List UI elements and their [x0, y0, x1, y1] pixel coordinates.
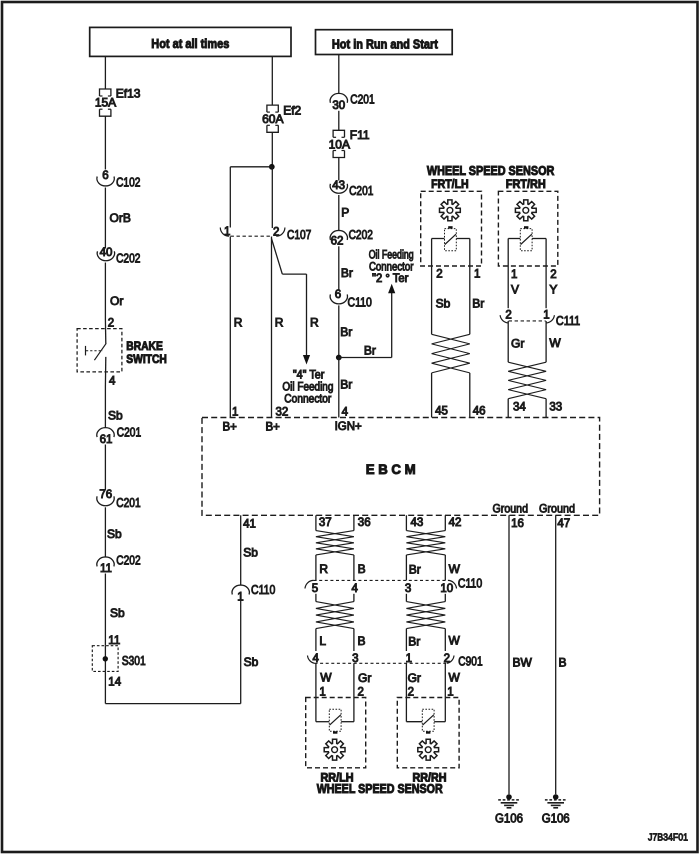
wire Br branch to oil feeding connector 2 Ter: [339, 293, 392, 358]
svg-text:Br: Br: [472, 297, 484, 311]
svg-text:2: 2: [505, 310, 511, 322]
svg-text:IGN+: IGN+: [335, 421, 362, 433]
svg-text:C202: C202: [349, 228, 373, 242]
svg-text:R: R: [275, 315, 284, 329]
wire: bus to connector C201 pin 30: [338, 55, 340, 94]
wire Gr: [508, 321, 524, 362]
svg-text:W: W: [449, 562, 461, 576]
svg-text:40: 40: [100, 247, 113, 259]
svg-text:R: R: [319, 562, 328, 576]
svg-text:WHEEL SPEED SENSOR: WHEEL SPEED SENSOR: [427, 164, 555, 178]
wire Br: junction to EBCM pin 4 (IGN+): [339, 358, 353, 418]
svg-text:C110: C110: [458, 577, 482, 591]
svg-text:C201: C201: [349, 184, 373, 198]
svg-text:1: 1: [237, 591, 243, 603]
connector C110 pin 1: [232, 583, 275, 603]
svg-text:S301: S301: [122, 654, 146, 668]
svg-text:Oil Feeding: Oil Feeding: [282, 382, 333, 394]
svg-text:Gr: Gr: [358, 671, 371, 685]
wire B: [354, 555, 366, 581]
svg-text:2: 2: [408, 686, 414, 698]
svg-text:B+: B+: [223, 422, 238, 434]
svg-text:WHEEL SPEED SENSOR: WHEEL SPEED SENSOR: [317, 782, 443, 796]
svg-text:Ef2: Ef2: [283, 104, 301, 118]
svg-text:C110: C110: [251, 583, 275, 597]
svg-text:R: R: [310, 315, 319, 329]
svg-text:Br: Br: [408, 634, 420, 648]
svg-text:C901: C901: [458, 655, 482, 669]
twisted pair (37/36): [316, 531, 354, 555]
svg-text:2: 2: [550, 269, 556, 281]
svg-text:Gr: Gr: [408, 671, 421, 685]
twisted pair FRT/RH: [508, 362, 546, 399]
svg-text:6: 6: [102, 170, 108, 182]
svg-text:C102: C102: [116, 176, 140, 190]
svg-text:Y: Y: [549, 283, 557, 297]
svg-text:2: 2: [108, 318, 114, 330]
svg-text:W: W: [549, 336, 561, 350]
svg-text:G106: G106: [495, 812, 523, 826]
wire branch to C107 pin 1: [230, 167, 271, 228]
svg-text:B: B: [358, 562, 366, 576]
svg-text:C110: C110: [348, 295, 372, 309]
wire B (EBCM 47 to G106): [556, 515, 567, 794]
svg-text:16: 16: [511, 518, 524, 530]
svg-text:14: 14: [108, 677, 121, 689]
svg-text:C201: C201: [350, 93, 374, 107]
svg-text:1: 1: [447, 686, 453, 698]
twisted pair FRT/LH: [432, 334, 470, 373]
svg-text:Or: Or: [110, 294, 123, 308]
wire Br: [406, 629, 420, 651]
svg-text:76: 76: [99, 489, 112, 501]
fuse Ef13 15A: [95, 86, 141, 116]
svg-text:"4" Ter: "4" Ter: [293, 370, 325, 382]
wire P: [339, 195, 349, 231]
svg-text:Br: Br: [340, 378, 352, 392]
junction node (Br splice): [336, 355, 342, 361]
wire Gr (to RR/RH pin 2): [406, 663, 421, 697]
wire R branch to 4 Ter oil feeding connector: [272, 239, 320, 356]
ground G106 (right): [542, 794, 570, 825]
svg-text:15A: 15A: [95, 95, 116, 109]
brake switch: [77, 320, 167, 387]
wire: bus to fuse Ef2: [271, 56, 273, 105]
svg-text:Sb: Sb: [108, 409, 123, 423]
svg-text:6: 6: [335, 289, 341, 301]
wire L: [316, 629, 327, 651]
svg-text:C202: C202: [116, 554, 140, 568]
svg-text:Sb: Sb: [244, 655, 259, 669]
svg-text:43: 43: [411, 517, 424, 529]
svg-text:42: 42: [449, 517, 462, 529]
wheel speed sensor FRT/LH: [421, 191, 482, 266]
wire Br to junction: [339, 305, 353, 357]
svg-text:4: 4: [342, 407, 349, 419]
wires below C110: [316, 594, 445, 602]
svg-text:1: 1: [543, 310, 549, 322]
svg-text:Sb: Sb: [243, 546, 258, 560]
svg-text:Connector: Connector: [284, 394, 331, 406]
wire: bus to fuse Ef13: [104, 56, 106, 88]
connector C202 pin 40: [97, 247, 140, 266]
svg-text:SWITCH: SWITCH: [126, 352, 167, 366]
twisted pair (3/1): [406, 602, 445, 629]
wire BW (EBCM 16 to G106): [509, 515, 533, 794]
svg-text:2: 2: [436, 269, 442, 281]
wire OrB: [105, 188, 130, 249]
annotation: Oil Feeding Connector "2" Ter: [369, 250, 414, 286]
svg-text:45: 45: [435, 405, 448, 417]
svg-text:Br: Br: [409, 563, 421, 577]
svg-text:C201: C201: [117, 426, 141, 440]
svg-text:2: 2: [358, 686, 364, 698]
svg-text:G106: G106: [542, 812, 570, 826]
power bus: Hot at all times: [90, 27, 291, 56]
connector C202 pin 62: [330, 228, 373, 248]
svg-text:Sb: Sb: [107, 527, 122, 541]
wire Sb (FRT/LH pin 2 to EBCM 45): [432, 239, 451, 335]
connector C201 pin 30: [330, 93, 375, 113]
connector C102 pin 6: [97, 170, 141, 190]
wire W: [445, 629, 460, 651]
svg-text:4: 4: [109, 375, 116, 387]
wire W: [546, 321, 561, 362]
fuse Ef2 60A: [262, 104, 301, 133]
wheel speed sensor FRT/RH: [498, 191, 557, 266]
svg-text:Ef13: Ef13: [116, 86, 141, 100]
annotation: "4" Ter Oil Feeding Connector: [282, 370, 333, 406]
connector C201 pin 61: [97, 426, 141, 447]
svg-text:1: 1: [224, 226, 230, 238]
wheel speed sensor RR/LH: [306, 698, 366, 768]
wire Br (62 to C110): [339, 246, 353, 290]
svg-text:C201: C201: [116, 496, 140, 510]
wire: fuse Ef13 to connector C102: [104, 116, 106, 169]
connector C107 (pins 1 and 2): [220, 226, 311, 242]
wire: C201 pin 61 to C201 pin 76: [104, 445, 106, 491]
wires from EBCM 37/36: [316, 515, 354, 530]
svg-text:3: 3: [405, 583, 411, 595]
svg-text:Br: Br: [341, 266, 353, 280]
wire: C201 to fuse F11: [338, 111, 340, 131]
svg-text:1: 1: [232, 407, 238, 419]
wire Br: [406, 555, 420, 581]
svg-text:1: 1: [511, 269, 517, 281]
wire Gr (to RR/LH pin 2): [354, 663, 371, 697]
wire Br (FRT/LH pin 1 to EBCM 46): [470, 239, 485, 335]
svg-text:"2 ° Ter: "2 ° Ter: [372, 273, 409, 285]
svg-text:W: W: [320, 670, 332, 684]
svg-text:FRT/LH: FRT/LH: [431, 177, 469, 191]
wires from EBCM 43/42: [406, 515, 445, 530]
svg-text:10: 10: [440, 583, 453, 595]
wire B: [354, 629, 366, 651]
svg-text:33: 33: [549, 402, 562, 414]
svg-text:W: W: [449, 670, 461, 684]
wires to EBCM pins 34/33: [508, 399, 546, 418]
wire R: [316, 555, 329, 581]
svg-text:Ground: Ground: [493, 502, 529, 516]
svg-text:R: R: [234, 316, 243, 330]
svg-text:1: 1: [474, 269, 480, 281]
wire R (C107 pin 2 to EBCM pin 32): [272, 237, 284, 418]
connector C110 pin 6: [330, 289, 372, 309]
connector C111 (pins 2 and 1): [500, 310, 580, 329]
svg-text:Oil Feeding: Oil Feeding: [369, 250, 414, 262]
svg-text:J7B34F01: J7B34F01: [648, 832, 688, 844]
svg-text:OrB: OrB: [110, 211, 131, 225]
svg-text:Sb: Sb: [110, 606, 125, 620]
connector C201 pin 76: [97, 489, 141, 510]
wire W (to RR/RH pin 1): [445, 663, 460, 697]
power bus: Hot in Run and Start: [316, 30, 453, 55]
EBCM module: [202, 418, 600, 516]
svg-text:BRAKE: BRAKE: [126, 339, 163, 353]
svg-text:61: 61: [100, 434, 113, 446]
svg-text:BW: BW: [513, 656, 533, 670]
svg-text:L: L: [319, 634, 326, 648]
svg-text:W: W: [449, 634, 461, 648]
svg-text:F11: F11: [350, 128, 370, 142]
wire Sb (brake switch to C201): [105, 387, 123, 428]
wire V: [508, 239, 519, 309]
ground G106 (left): [495, 794, 523, 825]
twisted pair (5/4): [316, 602, 354, 629]
svg-text:Hot in Run and Start: Hot in Run and Start: [332, 37, 439, 51]
svg-text:30: 30: [332, 100, 345, 112]
svg-text:1: 1: [319, 686, 325, 698]
svg-text:P: P: [341, 206, 349, 220]
wires to EBCM pins 45/46: [432, 373, 470, 418]
connector C201 pin 43: [330, 180, 373, 198]
svg-text:11: 11: [108, 635, 120, 647]
wire Sb (C201 to C202): [105, 507, 122, 556]
svg-text:36: 36: [358, 517, 371, 529]
connector C110 (pins 5,4,3,10): [305, 577, 482, 596]
svg-text:37: 37: [319, 517, 332, 529]
wire Sb: EBCM pin 41 to C110: [241, 515, 259, 585]
wire Sb to splice S301: [105, 574, 125, 646]
connector C901 (pins 4,3,1,2): [308, 653, 483, 669]
svg-text:47: 47: [557, 518, 570, 530]
splice S301: [92, 646, 145, 672]
svg-text:Ground: Ground: [539, 502, 575, 516]
svg-text:10A: 10A: [329, 137, 350, 151]
wire: fuse Ef2 to junction: [271, 132, 273, 167]
svg-text:B+: B+: [266, 422, 281, 434]
svg-text:Br: Br: [340, 325, 352, 339]
svg-text:62: 62: [331, 236, 344, 248]
svg-text:V: V: [511, 283, 519, 297]
fuse F11 10A: [329, 128, 370, 157]
wire W (to RR/LH pin 1): [316, 663, 332, 697]
wire Sb from S301 to connector C110 pin 1: [105, 601, 258, 704]
svg-text:Connector: Connector: [369, 262, 414, 274]
junction node below Ef2: [269, 164, 275, 170]
wire Or: [105, 263, 123, 320]
svg-text:11: 11: [100, 563, 112, 575]
svg-text:4: 4: [352, 583, 359, 595]
wheel speed sensor RR/RH: [397, 698, 459, 768]
svg-text:60A: 60A: [262, 112, 283, 126]
svg-text:41: 41: [243, 518, 256, 530]
svg-text:C202: C202: [116, 252, 140, 266]
arrow to oil feeding connector 2 Ter: [388, 284, 395, 294]
svg-text:Sb: Sb: [436, 297, 451, 311]
svg-text:B: B: [358, 634, 366, 648]
svg-text:34: 34: [513, 402, 526, 414]
wire Y: [546, 239, 557, 309]
svg-text:FRT/RH: FRT/RH: [506, 177, 546, 191]
wire to C107 pin 2: [271, 167, 273, 228]
svg-text:43: 43: [332, 180, 345, 192]
svg-text:46: 46: [473, 405, 486, 417]
svg-text:E B C M: E B C M: [366, 462, 416, 477]
wire W: [445, 555, 460, 581]
svg-text:5: 5: [312, 583, 318, 595]
svg-text:Gr: Gr: [511, 337, 524, 351]
arrow to 4 Ter oil feeding connector: [303, 355, 310, 365]
svg-text:C111: C111: [556, 314, 580, 328]
wire: fuse F11 to C201 pin 43: [338, 158, 340, 181]
twisted pair (43/42): [406, 531, 445, 555]
svg-text:Hot at all times: Hot at all times: [151, 37, 229, 51]
connector C202 pin 11: [97, 554, 141, 576]
wire R (C107 pin 1 to EBCM pin 1): [230, 237, 242, 418]
svg-text:B: B: [559, 656, 567, 670]
svg-text:Br: Br: [364, 343, 376, 357]
svg-text:C107: C107: [287, 228, 311, 242]
